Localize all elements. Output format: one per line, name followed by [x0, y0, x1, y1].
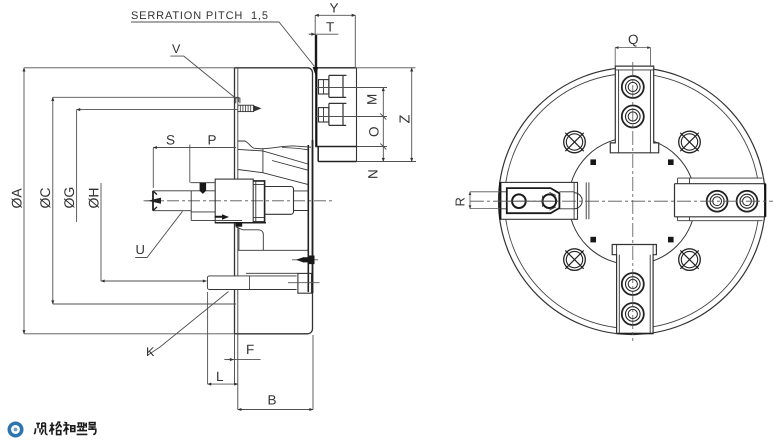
ext bolt2 centerline: [316, 116, 387, 118]
svg-text:F: F: [246, 342, 254, 357]
svg-text:ØH: ØH: [86, 188, 102, 209]
dim ØH vertical: [100, 183, 102, 281]
K bolt shaft divider: [249, 276, 251, 290]
plunger block: [215, 179, 253, 223]
dim ØH horizontal: [101, 280, 207, 282]
right jaw right edge thick: [764, 184, 766, 217]
jaw way thick line: [307, 145, 309, 292]
wedge vertical: [262, 149, 264, 173]
svg-text:ØG: ØG: [61, 187, 77, 209]
svg-text:B: B: [268, 393, 277, 408]
dim L extension: [207, 292, 209, 384]
dim T extensions: [315, 35, 317, 68]
svg-text:K: K: [146, 345, 155, 359]
left jaw screw line: [508, 200, 558, 202]
svg-text:Y: Y: [330, 1, 339, 16]
svg-text:Z: Z: [398, 115, 414, 124]
dim T line: [309, 33, 339, 35]
dim ØA top extension: [24, 67, 235, 69]
dim S P line: [153, 147, 236, 149]
right jaw: [675, 178, 763, 221]
dim ØC bottom extension: [53, 303, 236, 305]
rear pin dark: [235, 222, 242, 226]
serration leader: [131, 22, 315, 67]
svg-text:R: R: [453, 197, 468, 206]
stud notch: [236, 98, 240, 103]
centerline stub: [144, 200, 149, 202]
bolt1 shaft divider: [323, 80, 325, 94]
mid cylinder: [265, 187, 294, 215]
ext jaw step: [357, 146, 388, 148]
rear screw head dark: [309, 256, 315, 265]
jaw top edge: [315, 67, 356, 69]
nut inner lines: [253, 181, 264, 222]
top jaw inner lines: [610, 70, 658, 153]
body outline: [235, 68, 313, 334]
top jaw screw 2: [622, 106, 644, 128]
ext jaw top to Z: [355, 67, 415, 69]
svg-text:L: L: [216, 369, 224, 384]
rim circle: [505, 74, 760, 329]
svg-text:Q: Q: [628, 32, 639, 47]
bore spline lower: [282, 148, 308, 150]
outer circle: [499, 68, 766, 335]
bottom jaw: [612, 245, 656, 334]
svg-text:S: S: [166, 133, 175, 148]
vertical centerline: [632, 62, 634, 341]
backplate inner line: [237, 68, 239, 334]
rear screw centerline: [292, 259, 318, 261]
dim M O N vertical: [382, 88, 384, 162]
left jaw screw 2: [543, 194, 557, 208]
left jaw screw 1: [512, 194, 526, 208]
dim L line: [208, 383, 238, 385]
dim B extension: [312, 335, 314, 410]
dim ØC top extension: [53, 97, 239, 102]
dim F arrow: [226, 359, 234, 361]
bolt1 shaft: [319, 80, 329, 94]
cross hole TL: [564, 131, 586, 153]
bolt2 shaft: [319, 108, 329, 122]
cylinder bottom line: [238, 249, 308, 251]
cross hole BR: [679, 249, 701, 271]
section title glyph 号: [88, 423, 96, 435]
right jaw steps: [678, 178, 763, 221]
top jaw: [610, 66, 658, 153]
left jaw slot end arc: [574, 193, 582, 209]
section title glyph 和: [63, 422, 75, 435]
key BL: [590, 237, 596, 243]
dim R extensions: [470, 192, 500, 209]
section title glyph 规: [34, 423, 47, 435]
stud V threads: [240, 105, 250, 111]
tube end cap: [152, 191, 154, 211]
backplate spigot left: [234, 334, 236, 384]
dim R line: [469, 192, 471, 209]
horizontal centerline: [470, 200, 773, 202]
serration leader arrowhead: [313, 67, 319, 76]
bottom jaw screw 1: [622, 273, 644, 295]
centerline: [146, 200, 332, 202]
cross hole BL: [564, 249, 586, 271]
section bullet icon: [8, 422, 24, 438]
cross hole TR: [679, 131, 701, 153]
leader V: [170, 56, 236, 98]
svg-text:O: O: [367, 126, 382, 137]
wedge slant mid: [272, 161, 309, 171]
dim S P ticks: [153, 145, 190, 189]
jaw face serrated thick: [315, 68, 317, 147]
dim Z vertical: [411, 68, 413, 162]
bore spline: [238, 141, 311, 149]
key TL: [590, 159, 596, 165]
body rear face segments: [234, 68, 236, 334]
left jaw tongue lines: [500, 182, 574, 219]
section title glyph 格: [49, 422, 61, 435]
svg-text:V: V: [172, 42, 181, 56]
bottom jaw inner lines: [617, 245, 654, 334]
dim ØC vertical: [52, 97, 54, 304]
front face thick overlay: [312, 140, 314, 293]
K bolt shaft: [207, 276, 296, 290]
svg-text:N: N: [366, 169, 381, 179]
dim F line: [224, 359, 260, 361]
chamfer to cylinder: [236, 227, 243, 230]
boss circle: [569, 138, 696, 265]
left jaw step verticals: [586, 182, 589, 219]
dim Q extensions: [615, 48, 650, 66]
left jaw screw 2 hex: [543, 192, 557, 210]
bolt2 head: [329, 103, 347, 125]
draw tube outline: [153, 191, 215, 211]
K bolt head: [298, 273, 312, 293]
svg-text:ØA: ØA: [9, 188, 25, 209]
stud V shaft: [238, 105, 254, 111]
wedge slant upper: [238, 149, 308, 164]
svg-text:U: U: [136, 242, 145, 257]
dim Y extensions: [315, 15, 355, 68]
rear screw dark: [296, 257, 309, 263]
jaw right edge: [356, 68, 358, 162]
svg-text:P: P: [208, 133, 217, 148]
leader U: [135, 211, 182, 257]
right jaw screw 2: [737, 191, 758, 212]
nut block: [253, 181, 264, 222]
dim ØG vertical: [76, 110, 78, 222]
jaw step line: [315, 146, 356, 148]
dim ØA bottom extension: [24, 333, 235, 335]
dim T arrow: [309, 33, 315, 35]
svg-text:SERRATION PITCH 1,5: SERRATION PITCH 1,5: [131, 10, 269, 22]
collar line: [191, 182, 216, 184]
ext jaw bottom: [357, 161, 417, 163]
svg-text:T: T: [326, 20, 334, 35]
left jaw: [500, 182, 578, 219]
dim ØG horizontal: [77, 109, 238, 111]
dim Y line: [315, 14, 355, 16]
bolt1 head: [329, 75, 347, 97]
left jaw T-nut: [507, 188, 560, 213]
dim Q line: [615, 47, 650, 49]
leader K: [148, 292, 229, 356]
K bolt centerline: [288, 282, 320, 284]
bottom jaw screw 2: [622, 303, 644, 325]
right jaw outline: [675, 184, 766, 217]
dim M O ticks: [380, 114, 386, 150]
cylinder body: [239, 228, 263, 251]
top jaw screw 1: [622, 76, 644, 98]
stud V tip: [254, 105, 262, 111]
left jaw left edge thick: [499, 182, 501, 219]
bottom jaw bottom thick: [618, 333, 654, 335]
black arrow right: [215, 214, 229, 220]
svg-text:ØC: ØC: [37, 188, 53, 209]
right jaw screw 1: [707, 191, 728, 212]
key TR: [668, 159, 674, 165]
wedge slant lower: [238, 170, 309, 185]
key BR: [668, 237, 674, 243]
svg-text:M: M: [365, 94, 380, 105]
backplate spigot right: [237, 334, 239, 410]
K bolt boss line: [246, 272, 298, 274]
dim B line: [238, 409, 313, 411]
plunger bottom thick: [215, 222, 266, 224]
top pin dark: [200, 183, 207, 194]
section title glyph 型: [77, 422, 88, 434]
bolt2 shaft divider: [323, 108, 325, 122]
ext bolt1 centerline: [316, 87, 387, 89]
tip cylinder: [294, 191, 309, 211]
tube lower step: [191, 211, 242, 221]
tube end chamfers: [153, 191, 157, 210]
jaw lower block: [318, 147, 356, 162]
centerline arrow left: [148, 198, 161, 204]
dim ØA vertical: [23, 68, 25, 334]
